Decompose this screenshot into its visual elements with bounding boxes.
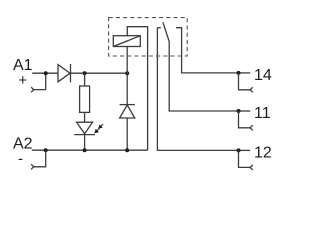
- node junction 11: [237, 109, 241, 113]
- terminal 12 (plug-in clamp symbol): [239, 150, 253, 170]
- node junction A2/diode: [125, 148, 129, 152]
- wire resistor to LED: [84, 112, 86, 122]
- resistor R1: [80, 86, 90, 112]
- node junction A2 terminal: [44, 148, 48, 152]
- wire freewheel diode top: [126, 73, 128, 104]
- contact NO fixed post (to 14): [176, 28, 239, 73]
- wire A1 horizontal (anode side): [32, 72, 58, 74]
- diode D1 (series, A1): [58, 64, 71, 82]
- relay outline (dashed box): [109, 18, 188, 56]
- wire coil top loop to A2: [127, 27, 147, 151]
- terminal 11 (plug-in clamp symbol): [239, 111, 253, 131]
- node junction A1/resistor: [83, 71, 87, 75]
- relay coil K1 (rect with diagonal): [113, 36, 140, 47]
- node junction A1 terminal: [44, 71, 48, 75]
- wire LED to A2: [84, 135, 86, 151]
- wire resistor branch top: [84, 73, 86, 86]
- wire A2 horizontal: [32, 149, 148, 151]
- node junction 14: [237, 71, 241, 75]
- contact NC fixed post (to 12): [157, 28, 238, 151]
- wire 11 to label: [239, 110, 251, 112]
- terminal A1 (plug-in clamp symbol): [31, 73, 45, 92]
- terminal A2 (plug-in clamp symbol): [31, 150, 45, 169]
- node junction A2/LED: [83, 148, 87, 152]
- wire D1 cathode to node: [71, 72, 128, 74]
- svg-text:12: 12: [254, 144, 272, 161]
- wire 14 to label: [239, 72, 251, 74]
- contact armature (movable): [163, 22, 169, 41]
- node junction A1/coil/diode: [125, 71, 129, 75]
- LED light arrows: [93, 122, 105, 135]
- wire freewheel diode bottom: [126, 118, 128, 150]
- svg-text:11: 11: [254, 105, 271, 122]
- diode D3 (freewheel, cathode bar up): [120, 105, 135, 118]
- wire coil bottom lead: [126, 47, 128, 74]
- wire 12 to label: [239, 149, 251, 151]
- node junction 12: [237, 148, 241, 152]
- svg-text:+: +: [18, 72, 27, 89]
- svg-text:14: 14: [254, 67, 272, 84]
- contact common post (to 11): [169, 42, 238, 112]
- svg-text:-: -: [18, 151, 23, 168]
- LED D2 (triangle + cathode bar): [74, 122, 95, 134]
- terminal 14 (plug-in clamp symbol): [239, 73, 253, 93]
